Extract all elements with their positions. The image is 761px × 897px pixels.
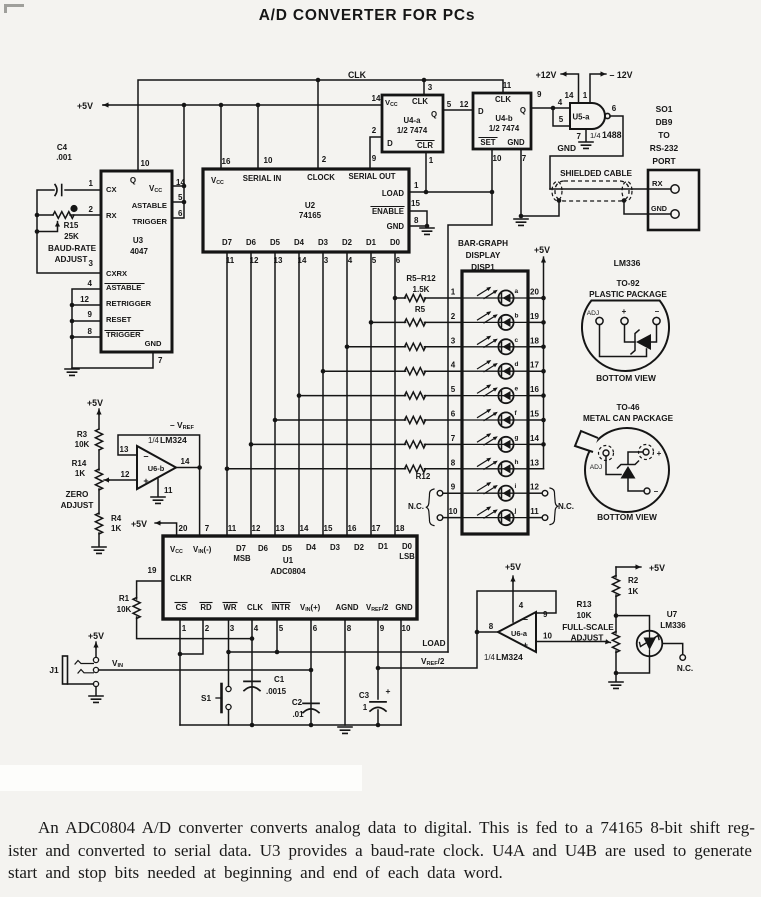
svg-text:D2: D2 [342,238,353,247]
svg-text:C2: C2 [292,698,303,707]
svg-text:TRIGGER: TRIGGER [106,330,141,339]
svg-text:17: 17 [372,524,381,533]
svg-text:j: j [514,508,517,515]
svg-text:12: 12 [530,483,539,492]
TO-92 package outline (bottom view) [582,301,669,372]
op-amp U6-a (1/4 LM324) [498,612,536,652]
svg-text:CLK: CLK [412,97,428,106]
svg-text:ADJ: ADJ [590,464,602,471]
svg-text:+5V: +5V [649,563,665,573]
ground J1 [89,696,103,702]
svg-text:.01: .01 [292,710,304,719]
svg-text:TO-92: TO-92 [616,279,640,288]
svg-text:SET: SET [480,138,495,147]
svg-text:D3: D3 [330,543,341,552]
svg-text:+: + [657,449,662,458]
resistor R6 (1.5K) [405,319,426,326]
svg-text:ASTABLE: ASTABLE [132,201,167,210]
svg-text:c: c [515,337,519,344]
wire R14 to R4 [98,489,100,514]
capacitor C3 (1uF) [370,701,386,703]
svg-text:D5: D5 [282,544,293,553]
svg-text:2: 2 [205,624,210,633]
svg-text:CLK: CLK [247,603,263,612]
svg-text:D0: D0 [402,542,413,551]
resistor R12 (1.5K) [405,465,426,472]
wire U6-b pin 11 to ground [157,479,159,496]
svg-text:D6: D6 [258,544,269,553]
svg-text:11: 11 [530,507,539,516]
svg-text:VCC: VCC [385,98,398,108]
svg-text:PLASTIC PACKAGE: PLASTIC PACKAGE [589,290,667,299]
svg-text:10K: 10K [576,611,591,620]
svg-text:14: 14 [565,91,574,100]
svg-text:14: 14 [530,434,539,443]
svg-text:5: 5 [447,100,452,109]
svg-text:10: 10 [402,624,411,633]
svg-text:R14: R14 [72,459,87,468]
svg-text:+5V: +5V [87,398,103,408]
wire bottom ground rail [180,724,401,726]
svg-text:LOAD: LOAD [422,639,445,648]
wire U3 pin1 CX loop with C4 [37,190,101,273]
svg-text:1488: 1488 [602,130,622,140]
resistor R5 (1.5K) [405,294,426,301]
svg-text:– 12V: – 12V [610,70,633,80]
svg-text:SERIAL IN: SERIAL IN [243,174,282,183]
svg-text:4047: 4047 [130,247,148,256]
ground U4-b [514,219,528,225]
wire CLK net (U3 Q pin10 to U4-a/U4-b clocks) [138,80,503,171]
svg-text:Q: Q [130,176,136,185]
resistor R1 (10K) [133,598,140,619]
svg-text:Q: Q [431,110,437,119]
svg-text:10: 10 [264,156,273,165]
wire U1 Vin(+) pin6 vertical with C2 [310,619,312,725]
svg-text:S1: S1 [201,694,211,703]
svg-text:D7: D7 [222,238,232,247]
wire U1 CLK pin4 vertical with C1 [251,619,253,725]
svg-text:10: 10 [543,632,552,641]
svg-text:ZERO: ZERO [66,490,89,499]
svg-text:PORT: PORT [652,156,676,166]
svg-text:1: 1 [414,181,419,190]
svg-text:3: 3 [451,336,456,345]
svg-text:13: 13 [120,445,129,454]
svg-text:13: 13 [530,458,539,467]
TO-92 lead ADJ [596,317,603,324]
svg-text:+: + [622,307,627,316]
svg-text:16: 16 [348,524,357,533]
svg-text:BAR-GRAPH: BAR-GRAPH [458,239,508,248]
svg-text:+5V: +5V [131,519,147,529]
svg-text:12: 12 [460,100,469,109]
wire R14 wiper to U6-b + input pin 12 [104,479,109,481]
capacitor C4 [61,185,63,196]
LED c (DISP1 segment 3) [462,336,528,355]
wire U5-a -12V supply pin 1 [590,74,600,103]
svg-text:D: D [387,139,393,148]
svg-text:7: 7 [451,434,456,443]
svg-text:1: 1 [182,624,187,633]
resistor R14 (1K pot, zero adjust) [95,469,102,490]
svg-text:MSB: MSB [233,554,251,563]
junction dots data branches [393,296,398,301]
LED h (DISP1 segment 8) [462,458,528,477]
svg-text:C1: C1 [274,675,285,684]
svg-text:C3: C3 [359,691,370,700]
svg-text:14: 14 [176,178,185,187]
wire +5V rail right of DISP1 [543,257,545,262]
wire Vref/2 net to U6-a output [378,632,477,668]
svg-text:5: 5 [559,115,564,124]
wire Vin from J1 to U1 pin 6 [99,669,311,671]
svg-text:1K: 1K [628,587,638,596]
svg-text:1: 1 [429,156,434,165]
svg-text:d: d [515,361,519,368]
IC U2 74165 [203,169,409,252]
svg-text:19: 19 [530,312,539,321]
svg-text:10: 10 [449,507,458,516]
svg-text:7: 7 [158,356,163,365]
LED f (DISP1 segment 6) [462,409,528,428]
svg-text:METAL CAN PACKAGE: METAL CAN PACKAGE [583,414,674,423]
svg-text:4: 4 [88,279,93,288]
svg-text:TO-46: TO-46 [616,403,640,412]
gate U5-a (1/4 1488) [570,103,605,129]
svg-text:.0015: .0015 [266,687,287,696]
svg-text:LSB: LSB [399,552,415,561]
svg-text:VREF/2: VREF/2 [421,657,445,667]
svg-text:3: 3 [428,83,433,92]
wire U4-b Q pin9 to U5-a inputs 4 and 5 [531,108,570,126]
svg-text:14: 14 [300,524,309,533]
wire +5V rail (top) [103,104,108,106]
IC U4-a 1/2 7474 [382,95,443,152]
scan artifact marks [0,765,362,791]
svg-text:10: 10 [141,159,150,168]
resistor R2 (1K) [612,576,619,597]
IC U3 4047 [101,171,172,352]
svg-text:DISPLAY: DISPLAY [466,251,501,260]
svg-text:DISP1: DISP1 [471,263,495,272]
terminal N.C. right pin 11 [528,517,542,519]
svg-text:a: a [515,288,519,295]
svg-text:1/4: 1/4 [484,653,496,662]
svg-text:5: 5 [178,193,183,202]
LED j (DISP1 segment 10) [462,506,528,525]
svg-text:+12V: +12V [536,70,557,80]
wire U6-b feedback (pin13 to output) and -Vref node [118,435,200,468]
svg-text:AGND: AGND [336,603,359,612]
svg-text:+5V: +5V [88,631,104,641]
IC U1 ADC0804 [163,536,417,619]
svg-text:LM324: LM324 [160,435,187,445]
ground at R13 [609,682,623,688]
wire cable shield to GND pin of DB9 [624,201,671,214]
wire U6-b output pin 14 to U1 Vin(-) pin 7 [176,468,200,537]
svg-text:A/D CONVERTER FOR PCs: A/D CONVERTER FOR PCs [259,7,476,24]
wire U6-a +5V supply pin 4 [512,576,514,581]
svg-text:R12: R12 [416,472,431,481]
wire U2 ENABLE pin15 + GND pin8 to ground [409,211,427,226]
wire R2 to R13 [615,595,617,633]
svg-text:11: 11 [503,81,512,90]
wire data bus D7-D0 from U2 to U1 [226,252,228,536]
svg-text:INTR: INTR [272,603,291,612]
R15 wiper arm [57,222,59,227]
svg-text:1K: 1K [75,469,85,478]
svg-text:12: 12 [80,295,89,304]
svg-text:D4: D4 [306,543,317,552]
ground U5-a [579,142,593,148]
resistor R3 (10K) [95,429,102,450]
wire U3 left pins 4/12/9/8 tie [72,289,101,368]
wire U5-a output pin6 to RX line [550,116,623,189]
svg-text:74165: 74165 [299,211,322,220]
svg-text:8: 8 [414,216,419,225]
svg-text:10K: 10K [75,440,90,449]
svg-text:3: 3 [89,259,94,268]
switch S1 (start pushbutton) [228,652,230,686]
svg-text:D1: D1 [366,238,377,247]
wire R2 top [615,567,617,577]
svg-text:13: 13 [276,524,285,533]
svg-text:1: 1 [363,703,368,712]
svg-text:D2: D2 [354,543,365,552]
svg-text:CXRX: CXRX [106,269,127,278]
resistor R4 (1K) [95,513,102,534]
svg-text:–: – [655,307,660,316]
svg-text:U2: U2 [305,201,316,210]
svg-text:25K: 25K [64,232,79,241]
svg-text:U6-b: U6-b [148,464,165,473]
svg-text:VCC: VCC [170,545,183,555]
svg-text:LM324: LM324 [496,652,523,662]
svg-text:GND: GND [145,339,162,348]
shielded cable (dashed shield) [555,181,629,201]
wire U1 CLKR pin 19 through R1 [137,581,163,599]
TO-46 lead - [644,488,650,494]
junction blob near R15 [70,205,77,212]
svg-text:U3: U3 [133,236,144,245]
svg-text:1: 1 [583,91,588,100]
caption paragraph [8,817,754,885]
wire U4-a Q pin5 to U4-b D pin12 [443,109,473,111]
svg-text:D4: D4 [294,238,305,247]
connector SO1 DB9 [648,170,699,230]
svg-text:N.C.: N.C. [677,664,693,673]
svg-text:20: 20 [179,524,188,533]
wire +5V to R3 [98,409,100,414]
wire U6-a output to Vref/2 node [477,631,498,633]
wire CLK to U2 CLOCK pin 2 [317,80,319,169]
TO-92 ADJ wire [600,325,647,357]
connector J1 (phone jack) [63,656,68,684]
svg-text:9: 9 [537,90,542,99]
svg-text:FULL-SCALE: FULL-SCALE [562,623,614,632]
wire U6-a pin 10 to R13 wiper [536,641,605,643]
terminal N.C. left pin 10 [437,515,443,521]
svg-text:18: 18 [396,524,405,533]
svg-text:10K: 10K [117,605,132,614]
svg-text:CLOCK: CLOCK [307,173,335,182]
wire R4 to ground [98,533,100,546]
svg-text:2: 2 [322,155,327,164]
svg-text:D5: D5 [270,238,281,247]
svg-text:10: 10 [493,154,502,163]
svg-text:U4-b: U4-b [495,114,513,123]
TO-46 can outline with tab (bottom view) [585,428,669,512]
brace and label N.C. left [426,489,434,526]
svg-text:7: 7 [522,154,527,163]
svg-text:–: – [143,451,148,461]
svg-text:9: 9 [543,610,548,619]
svg-text:RS-232: RS-232 [650,143,679,153]
svg-text:6: 6 [313,624,318,633]
svg-text:1/2 7474: 1/2 7474 [489,124,520,133]
resistor R13 (10K pot, full-scale adjust) [612,632,619,653]
resistor R9 (1.5K) [405,392,426,399]
svg-text:– VREF: – VREF [170,420,194,431]
svg-text:15: 15 [411,199,420,208]
svg-text:GND: GND [651,204,667,213]
svg-text:R2: R2 [628,576,639,585]
ground U2 [420,228,434,234]
svg-text:U1: U1 [283,556,294,565]
svg-text:4: 4 [519,601,524,610]
resistor R11 (1.5K) [405,441,426,448]
svg-text:R4: R4 [111,514,122,523]
svg-text:+: + [386,686,391,696]
svg-text:b: b [515,312,519,319]
svg-text:R13: R13 [576,600,591,609]
LED g (DISP1 segment 7) [462,433,528,452]
svg-text:SO1: SO1 [656,104,673,114]
svg-text:1: 1 [89,179,94,188]
svg-text:LM336: LM336 [660,621,686,630]
svg-text:U6-a: U6-a [511,629,528,638]
svg-text:16: 16 [222,157,231,166]
ground below R4 [92,547,106,553]
svg-text:D7: D7 [236,544,246,553]
svg-text:ASTABLE: ASTABLE [106,283,141,292]
op-amp U6-b (1/4 LM324) [137,446,176,489]
wire U4-b SET pin10 to LOAD net vertical [448,149,492,652]
svg-text:15: 15 [530,410,539,419]
IC U4-b 1/2 7474 [473,93,531,149]
svg-text:1.5K: 1.5K [413,285,430,294]
wire U4-a CLR pin1 down [425,152,427,192]
svg-text:R15: R15 [64,221,79,230]
wire R13 to ground [615,651,617,681]
svg-text:h: h [515,459,519,466]
TO-46 ADJ wire [606,456,621,475]
svg-text:D0: D0 [390,238,401,247]
svg-text:8: 8 [347,624,352,633]
svg-text:ADJUST: ADJUST [61,501,94,510]
svg-text:9: 9 [380,624,385,633]
svg-text:D6: D6 [246,238,257,247]
resistor R15 (25K pot) [53,212,74,219]
wire U5-a GND pin 7 [585,129,587,141]
ground U3 [65,369,79,375]
resistor R10 (1.5K) [405,416,426,423]
svg-text:8: 8 [489,622,494,631]
svg-text:GND: GND [387,222,405,231]
wire U1 WR pin3 / INTR pin5 LOAD net [229,619,449,652]
svg-text:1: 1 [451,288,456,297]
wire U3 pins 14/5/6 to +5V rail [172,105,184,218]
svg-text:VIN(+): VIN(+) [300,603,321,613]
svg-text:D: D [478,107,484,116]
svg-text:+5V: +5V [534,245,550,255]
bar-graph display DISP1 [462,271,528,534]
wire U6-a feedback pin 9 to output pin 8 [477,591,556,632]
svg-text:5: 5 [279,624,284,633]
svg-text:9: 9 [451,483,456,492]
ground bottom rail [338,727,352,733]
svg-text:N.C.: N.C. [408,502,424,511]
wire RX line through cable [550,188,671,190]
svg-text:U4-a: U4-a [404,116,422,125]
svg-text:TRIGGER: TRIGGER [132,217,167,226]
svg-text:GND: GND [557,143,576,153]
svg-text:D3: D3 [318,238,329,247]
svg-text:RETRIGGER: RETRIGGER [106,299,152,308]
svg-text:6: 6 [178,209,183,218]
wire U7 to N.C. terminal [662,644,682,655]
svg-text:20: 20 [530,288,539,297]
svg-text:SERIAL OUT: SERIAL OUT [348,172,395,181]
svg-text:7: 7 [577,132,582,141]
wire +5V to J1 switch contact [95,642,97,647]
TO-92 lead + [621,317,628,324]
svg-text:BOTTOM VIEW: BOTTOM VIEW [596,373,656,383]
svg-text:17: 17 [530,361,539,370]
wire J1 ground [95,687,97,695]
svg-text:11: 11 [164,486,173,495]
svg-text:LM336: LM336 [614,258,641,268]
wire U2 Vcc pin16 to +5V [220,105,222,169]
wire U2 LOAD pin1 / U4-a CLR / U4-b SET tie [409,191,492,193]
svg-text:7: 7 [205,524,210,533]
capacitor C2 (.01) [303,702,319,704]
svg-text:VREF/2: VREF/2 [366,603,389,613]
svg-text:12: 12 [121,470,130,479]
svg-text:U7: U7 [667,610,678,619]
svg-text:CX: CX [106,185,117,194]
capacitor C1 (.0015) [244,680,260,682]
svg-text:RX: RX [106,211,117,220]
svg-text:f: f [515,410,518,417]
svg-text:RESET: RESET [106,315,132,324]
svg-text:BAUD-RATE: BAUD-RATE [48,244,97,253]
svg-text:4: 4 [558,98,563,107]
ground U6-b [151,497,165,503]
wire U1 Vcc pin 20 to +5V arrow [158,523,177,536]
svg-text:9: 9 [88,310,93,319]
svg-text:11: 11 [228,524,237,533]
svg-text:+: + [523,640,528,650]
svg-text:14: 14 [372,94,381,103]
resistor R8 (1.5K) [405,368,426,375]
svg-text:15: 15 [324,524,333,533]
LED b (DISP1 segment 2) [462,311,528,330]
svg-text:5: 5 [372,256,377,265]
svg-text:2: 2 [372,126,377,135]
svg-text:J1: J1 [49,665,59,675]
